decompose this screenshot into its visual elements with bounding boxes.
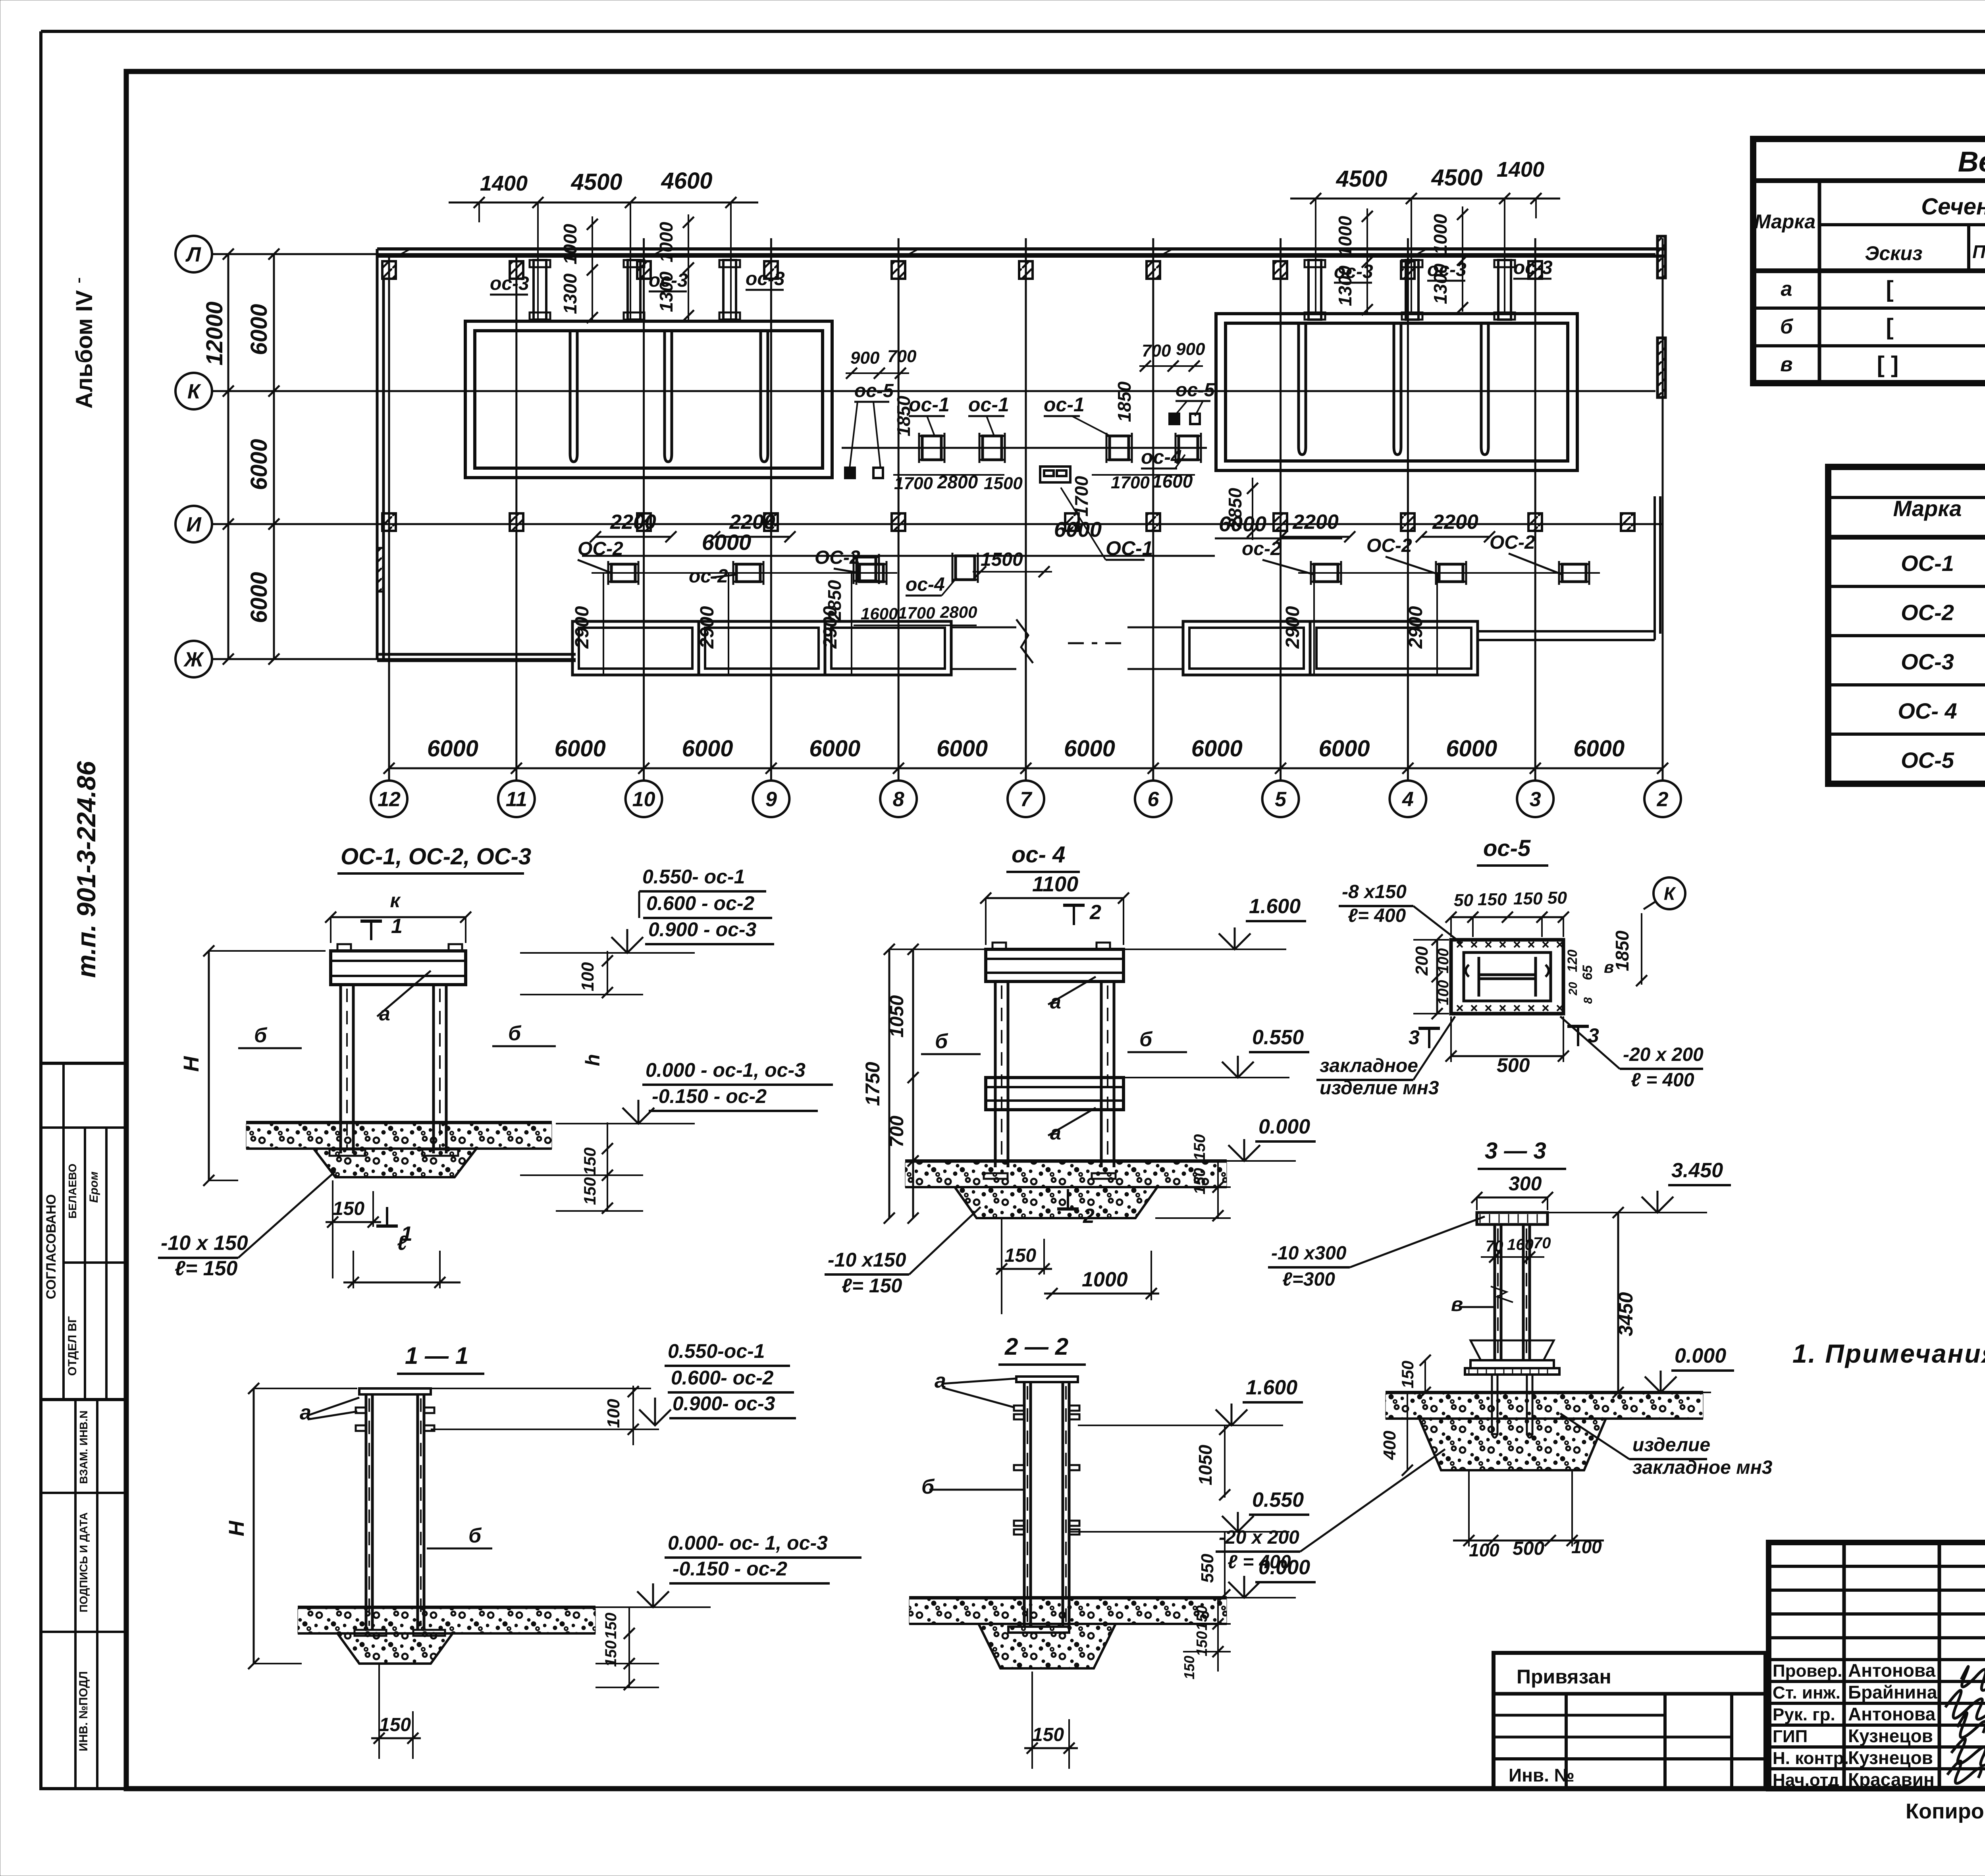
svg-text:1.600: 1.600	[1246, 1376, 1297, 1399]
svg-text:400: 400	[1380, 1431, 1399, 1460]
svg-text:ос-3: ос-3	[490, 273, 529, 294]
svg-text:-10 х150: -10 х150	[828, 1249, 906, 1271]
svg-text:0.900- ос-3: 0.900- ос-3	[673, 1392, 775, 1415]
svg-text:2850: 2850	[824, 580, 845, 621]
svg-text:6000: 6000	[1573, 736, 1625, 762]
svg-text:ос-5: ос-5	[854, 380, 894, 401]
svg-text:ос- 4: ос- 4	[1012, 842, 1065, 868]
svg-text:1050: 1050	[1195, 1444, 1216, 1485]
svg-text:-0.150 - ос-2: -0.150 - ос-2	[652, 1085, 767, 1107]
svg-text:ОС-2: ОС-2	[1490, 532, 1535, 553]
svg-text:6000: 6000	[555, 736, 606, 762]
svg-text:ос-2: ос-2	[1242, 538, 1281, 559]
svg-text:4: 4	[1402, 788, 1414, 811]
svg-text:100: 100	[1435, 980, 1452, 1005]
svg-text:-10 х300: -10 х300	[1271, 1243, 1347, 1264]
svg-text:6000: 6000	[809, 736, 860, 762]
svg-text:6000: 6000	[937, 736, 988, 762]
svg-text:Н: Н	[225, 1521, 249, 1537]
svg-text:1700: 1700	[1071, 476, 1092, 517]
svg-text:6000: 6000	[1064, 736, 1115, 762]
svg-text:1300: 1300	[1430, 263, 1451, 304]
svg-text:1300: 1300	[656, 271, 676, 312]
svg-text:4500: 4500	[1336, 166, 1387, 192]
svg-text:2: 2	[1657, 788, 1669, 811]
svg-text:1300: 1300	[1335, 265, 1355, 306]
svg-text:1750: 1750	[861, 1062, 884, 1106]
svg-text:150: 150	[1191, 1134, 1208, 1161]
svg-text:ос-5: ос-5	[1176, 380, 1215, 401]
svg-text:т.п. 901-3-224.86: т.п. 901-3-224.86	[71, 761, 101, 978]
svg-text:100: 100	[1435, 948, 1452, 973]
svg-text:2: 2	[1089, 901, 1101, 924]
svg-text:2200: 2200	[1292, 511, 1339, 534]
svg-text:150: 150	[602, 1613, 620, 1639]
svg-text:12: 12	[378, 788, 401, 811]
svg-text:150: 150	[1194, 1631, 1210, 1656]
svg-text:6000: 6000	[1191, 736, 1243, 762]
svg-text:1000: 1000	[656, 222, 676, 262]
svg-text:Ведомость элементов: Ведомость элементов	[1958, 146, 1985, 178]
svg-text:ос-3: ос-3	[1513, 257, 1553, 278]
svg-text:ОТДЕЛ ВГ: ОТДЕЛ ВГ	[66, 1316, 79, 1376]
svg-text:Ж: Ж	[183, 648, 204, 671]
svg-text:ос-1: ос-1	[968, 393, 1009, 416]
svg-text:h: h	[582, 1054, 604, 1066]
svg-text:0.550: 0.550	[1252, 1026, 1304, 1049]
svg-text:120: 120	[1565, 950, 1580, 972]
svg-text:ГИП: ГИП	[1773, 1727, 1808, 1746]
svg-text:ИНВ. №ПОДЛ: ИНВ. №ПОДЛ	[77, 1671, 90, 1751]
svg-text:50: 50	[1454, 891, 1473, 910]
svg-text:ОС-1: ОС-1	[1106, 537, 1153, 559]
svg-text:1700: 1700	[894, 474, 933, 493]
svg-text:500: 500	[1513, 1538, 1544, 1559]
svg-text:Кузнецов: Кузнецов	[1848, 1747, 1933, 1768]
svg-text:150: 150	[1191, 1168, 1208, 1195]
svg-text:Ст. инж.: Ст. инж.	[1773, 1683, 1840, 1702]
svg-text:в: в	[1451, 1293, 1463, 1315]
svg-text:ℓ= 150: ℓ= 150	[842, 1274, 902, 1297]
svg-text:-0.150 - ос-2: -0.150 - ос-2	[673, 1558, 787, 1580]
svg-text:б: б	[1780, 315, 1794, 338]
svg-text:[: [	[1886, 314, 1893, 340]
svg-text:150: 150	[580, 1177, 599, 1205]
svg-text:Рук. гр.: Рук. гр.	[1773, 1705, 1835, 1724]
svg-text:ℓ = 400: ℓ = 400	[1228, 1552, 1291, 1573]
svg-text:ОС-1, ОС-2, ОС-3: ОС-1, ОС-2, ОС-3	[341, 844, 531, 870]
svg-text:6000: 6000	[246, 572, 272, 623]
svg-text:50: 50	[1548, 888, 1567, 908]
svg-text:6000: 6000	[427, 736, 478, 762]
svg-text:0.550- ос-1: 0.550- ос-1	[642, 866, 745, 888]
svg-text:2850: 2850	[1225, 488, 1245, 529]
svg-text:4600: 4600	[661, 168, 712, 194]
svg-text:900: 900	[850, 348, 880, 368]
svg-text:200: 200	[1412, 946, 1432, 976]
svg-text:изделие: изделие	[1632, 1434, 1710, 1456]
svg-text:5: 5	[1275, 788, 1287, 811]
svg-text:Сечение: Сечение	[1921, 194, 1985, 220]
svg-text:100: 100	[604, 1399, 623, 1428]
svg-text:Привязан: Привязан	[1517, 1666, 1611, 1688]
svg-text:ℓ= 400: ℓ= 400	[1348, 905, 1406, 926]
svg-text:ос-4: ос-4	[1141, 446, 1182, 468]
svg-text:Нач.отд: Нач.отд	[1773, 1770, 1839, 1790]
svg-text:9: 9	[765, 788, 777, 811]
svg-text:100: 100	[1469, 1540, 1499, 1560]
svg-text:150: 150	[1513, 889, 1543, 908]
svg-text:ℓ: ℓ	[397, 1232, 408, 1255]
svg-text:3.450: 3.450	[1671, 1159, 1723, 1182]
svg-text:БЕЛАЕВО: БЕЛАЕВО	[66, 1164, 79, 1219]
svg-text:Л: Л	[185, 243, 201, 266]
svg-text:6: 6	[1147, 788, 1159, 811]
svg-text:Инв. №: Инв. №	[1509, 1765, 1575, 1785]
svg-text:1100: 1100	[1032, 872, 1078, 896]
svg-text:-20 х 200: -20 х 200	[1219, 1527, 1299, 1548]
svg-text:1300: 1300	[560, 273, 580, 314]
svg-text:-20 х 200: -20 х 200	[1623, 1044, 1704, 1065]
svg-text:1000: 1000	[560, 224, 580, 264]
svg-text:ВЗАМ. ИНВ.N: ВЗАМ. ИНВ.N	[77, 1410, 90, 1484]
svg-text:7: 7	[1020, 788, 1033, 811]
svg-text:300: 300	[1509, 1172, 1542, 1195]
svg-text:1: 1	[391, 915, 403, 938]
svg-text:ℓ=300: ℓ=300	[1282, 1269, 1335, 1290]
svg-text:70: 70	[1533, 1234, 1551, 1252]
svg-text:в: в	[1780, 353, 1792, 376]
svg-text:3 — 3: 3 — 3	[1485, 1138, 1546, 1164]
svg-text:700: 700	[1142, 341, 1171, 361]
svg-text:2: 2	[1083, 1205, 1095, 1228]
svg-text:3450: 3450	[1615, 1292, 1637, 1336]
svg-text:0.550: 0.550	[1252, 1488, 1304, 1512]
svg-text:ОС-2: ОС-2	[1366, 535, 1412, 556]
svg-text:изделие мн3: изделие мн3	[1320, 1078, 1439, 1099]
svg-text:1 — 1: 1 — 1	[405, 1342, 468, 1369]
svg-text:0.000: 0.000	[1675, 1344, 1726, 1367]
svg-text:150: 150	[1181, 1656, 1197, 1679]
svg-text:ОС-3: ОС-3	[1901, 649, 1954, 674]
svg-text:ОС-1: ОС-1	[1901, 551, 1954, 576]
svg-text:К: К	[187, 380, 201, 403]
svg-text:3: 3	[1530, 788, 1541, 811]
svg-text:2800: 2800	[937, 472, 978, 492]
svg-text:ОС-5: ОС-5	[1901, 748, 1954, 773]
svg-text:ос-4: ос-4	[906, 574, 945, 595]
svg-text:б: б	[921, 1475, 935, 1498]
svg-text:1000: 1000	[1082, 1268, 1128, 1291]
svg-text:ос-3: ос-3	[746, 268, 785, 289]
svg-text:1700: 1700	[898, 603, 935, 622]
svg-text:Марка: Марка	[1893, 496, 1962, 521]
svg-text:20: 20	[1567, 982, 1580, 996]
svg-text:8: 8	[1582, 997, 1595, 1004]
svg-text:1.600: 1.600	[1249, 895, 1301, 918]
svg-text:б: б	[468, 1524, 482, 1547]
svg-text:ПОДПИСЬ И ДАТА: ПОДПИСЬ И ДАТА	[77, 1512, 90, 1612]
svg-text:1700: 1700	[1111, 473, 1150, 492]
svg-text:1000: 1000	[1430, 214, 1451, 255]
svg-text:ОС- 4: ОС- 4	[1898, 698, 1957, 723]
svg-text:Антонова: Антонова	[1848, 1660, 1936, 1681]
svg-text:ОС-2: ОС-2	[1901, 600, 1954, 625]
svg-text:Копировал: Антипова: Копировал: Антипова	[1906, 1799, 1985, 1823]
svg-text:150: 150	[1194, 1605, 1210, 1630]
svg-text:-10 x 150: -10 x 150	[161, 1232, 248, 1255]
svg-text:150: 150	[1478, 890, 1507, 909]
svg-text:Марка: Марка	[1754, 210, 1815, 233]
svg-text:Н. контр.: Н. контр.	[1773, 1749, 1849, 1768]
svg-text:ос-1: ос-1	[1044, 393, 1085, 416]
svg-text:1. Примечания смотри лист: 1. Примечания смотри лист КМ-5.	[1792, 1339, 1985, 1368]
svg-text:Провер.: Провер.	[1773, 1661, 1842, 1681]
svg-text:12000: 12000	[202, 301, 227, 365]
svg-text:1850: 1850	[1114, 381, 1135, 422]
svg-text:10: 10	[632, 788, 655, 811]
svg-text:0.000: 0.000	[1258, 1115, 1310, 1138]
svg-text:1400: 1400	[1497, 158, 1544, 181]
svg-text:б: б	[254, 1024, 268, 1047]
svg-text:б: б	[935, 1030, 948, 1053]
svg-text:0.900 - ос-3: 0.900 - ос-3	[648, 918, 757, 941]
svg-text:6000: 6000	[702, 530, 752, 555]
svg-text:2 — 2: 2 — 2	[1004, 1333, 1068, 1360]
svg-text:150: 150	[580, 1147, 599, 1175]
svg-text:1400: 1400	[480, 172, 528, 195]
svg-text:1850: 1850	[893, 395, 914, 436]
svg-text:4500: 4500	[1431, 165, 1482, 191]
svg-text:закладное: закладное	[1320, 1055, 1418, 1076]
svg-text:к: к	[390, 889, 401, 912]
svg-text:0.600- ос-2: 0.600- ос-2	[671, 1367, 774, 1389]
svg-text:100: 100	[1571, 1537, 1602, 1557]
svg-text:б: б	[1139, 1028, 1153, 1051]
svg-text:8: 8	[893, 788, 904, 811]
svg-text:И: И	[186, 513, 202, 536]
svg-text:Поз.: Поз.	[1972, 241, 1985, 262]
svg-text:6000: 6000	[1318, 736, 1370, 762]
svg-text:900: 900	[1176, 339, 1205, 359]
svg-text:6000: 6000	[246, 439, 272, 490]
svg-text:3: 3	[1409, 1026, 1420, 1049]
svg-text:6000: 6000	[246, 304, 272, 355]
svg-text:[ ]: [ ]	[1877, 352, 1899, 378]
svg-text:ℓ= 150: ℓ= 150	[175, 1257, 237, 1280]
svg-text:1500: 1500	[981, 549, 1023, 570]
svg-text:Антонова: Антонова	[1848, 1704, 1936, 1724]
svg-text:0.000 - ос-1, ос-3: 0.000 - ос-1, ос-3	[646, 1059, 806, 1081]
svg-text:150: 150	[1004, 1245, 1036, 1266]
svg-text:Красавин: Красавин	[1848, 1769, 1935, 1790]
svg-text:[: [	[1886, 276, 1893, 302]
svg-text:1500: 1500	[984, 474, 1023, 493]
svg-text:ос-5: ос-5	[1483, 835, 1531, 861]
svg-text:а: а	[1781, 278, 1792, 301]
svg-text:Ером: Ером	[87, 1172, 100, 1203]
svg-text:закладное мн3: закладное мн3	[1632, 1457, 1773, 1478]
svg-text:1600: 1600	[1152, 471, 1193, 492]
svg-text:Эскиз: Эскиз	[1865, 242, 1922, 264]
svg-text:-8 х150: -8 х150	[1342, 881, 1407, 902]
svg-text:Брайнина: Брайнина	[1848, 1682, 1937, 1702]
svg-text:150: 150	[1398, 1361, 1417, 1388]
svg-text:2200: 2200	[610, 511, 656, 534]
svg-text:0.600 - ос-2: 0.600 - ос-2	[646, 892, 755, 914]
svg-text:а: а	[300, 1401, 311, 1424]
svg-text:65: 65	[1580, 965, 1595, 980]
svg-text:ℓ = 400: ℓ = 400	[1631, 1070, 1694, 1091]
svg-text:СОГЛАСОВАНО: СОГЛАСОВАНО	[44, 1194, 59, 1300]
svg-text:в: в	[1604, 958, 1614, 976]
svg-text:1850: 1850	[1612, 930, 1632, 971]
svg-text:500: 500	[1497, 1054, 1530, 1076]
svg-text:6000: 6000	[1054, 518, 1102, 542]
svg-text:Н: Н	[179, 1056, 203, 1072]
svg-text:100: 100	[578, 962, 597, 991]
svg-text:160: 160	[1507, 1236, 1534, 1253]
svg-text:б: б	[508, 1022, 522, 1045]
svg-text:2800: 2800	[940, 603, 977, 621]
svg-text:ос-1: ос-1	[909, 393, 950, 416]
svg-text:6000: 6000	[1446, 736, 1497, 762]
svg-text:6000: 6000	[682, 736, 733, 762]
svg-text:0.550-ос-1: 0.550-ос-1	[668, 1340, 765, 1362]
svg-text:1000: 1000	[1335, 216, 1355, 256]
svg-text:Альбом IV: Альбом IV	[71, 290, 97, 409]
svg-text:4500: 4500	[570, 169, 622, 195]
svg-text:2200: 2200	[1432, 511, 1478, 534]
svg-text:550: 550	[1198, 1554, 1217, 1583]
svg-text:700: 700	[887, 347, 917, 366]
svg-text:Кузнецов: Кузнецов	[1848, 1726, 1933, 1746]
svg-text:11: 11	[506, 788, 527, 811]
svg-text:0.000- ос- 1, ос-3: 0.000- ос- 1, ос-3	[668, 1532, 828, 1554]
svg-text:К: К	[1664, 883, 1676, 904]
